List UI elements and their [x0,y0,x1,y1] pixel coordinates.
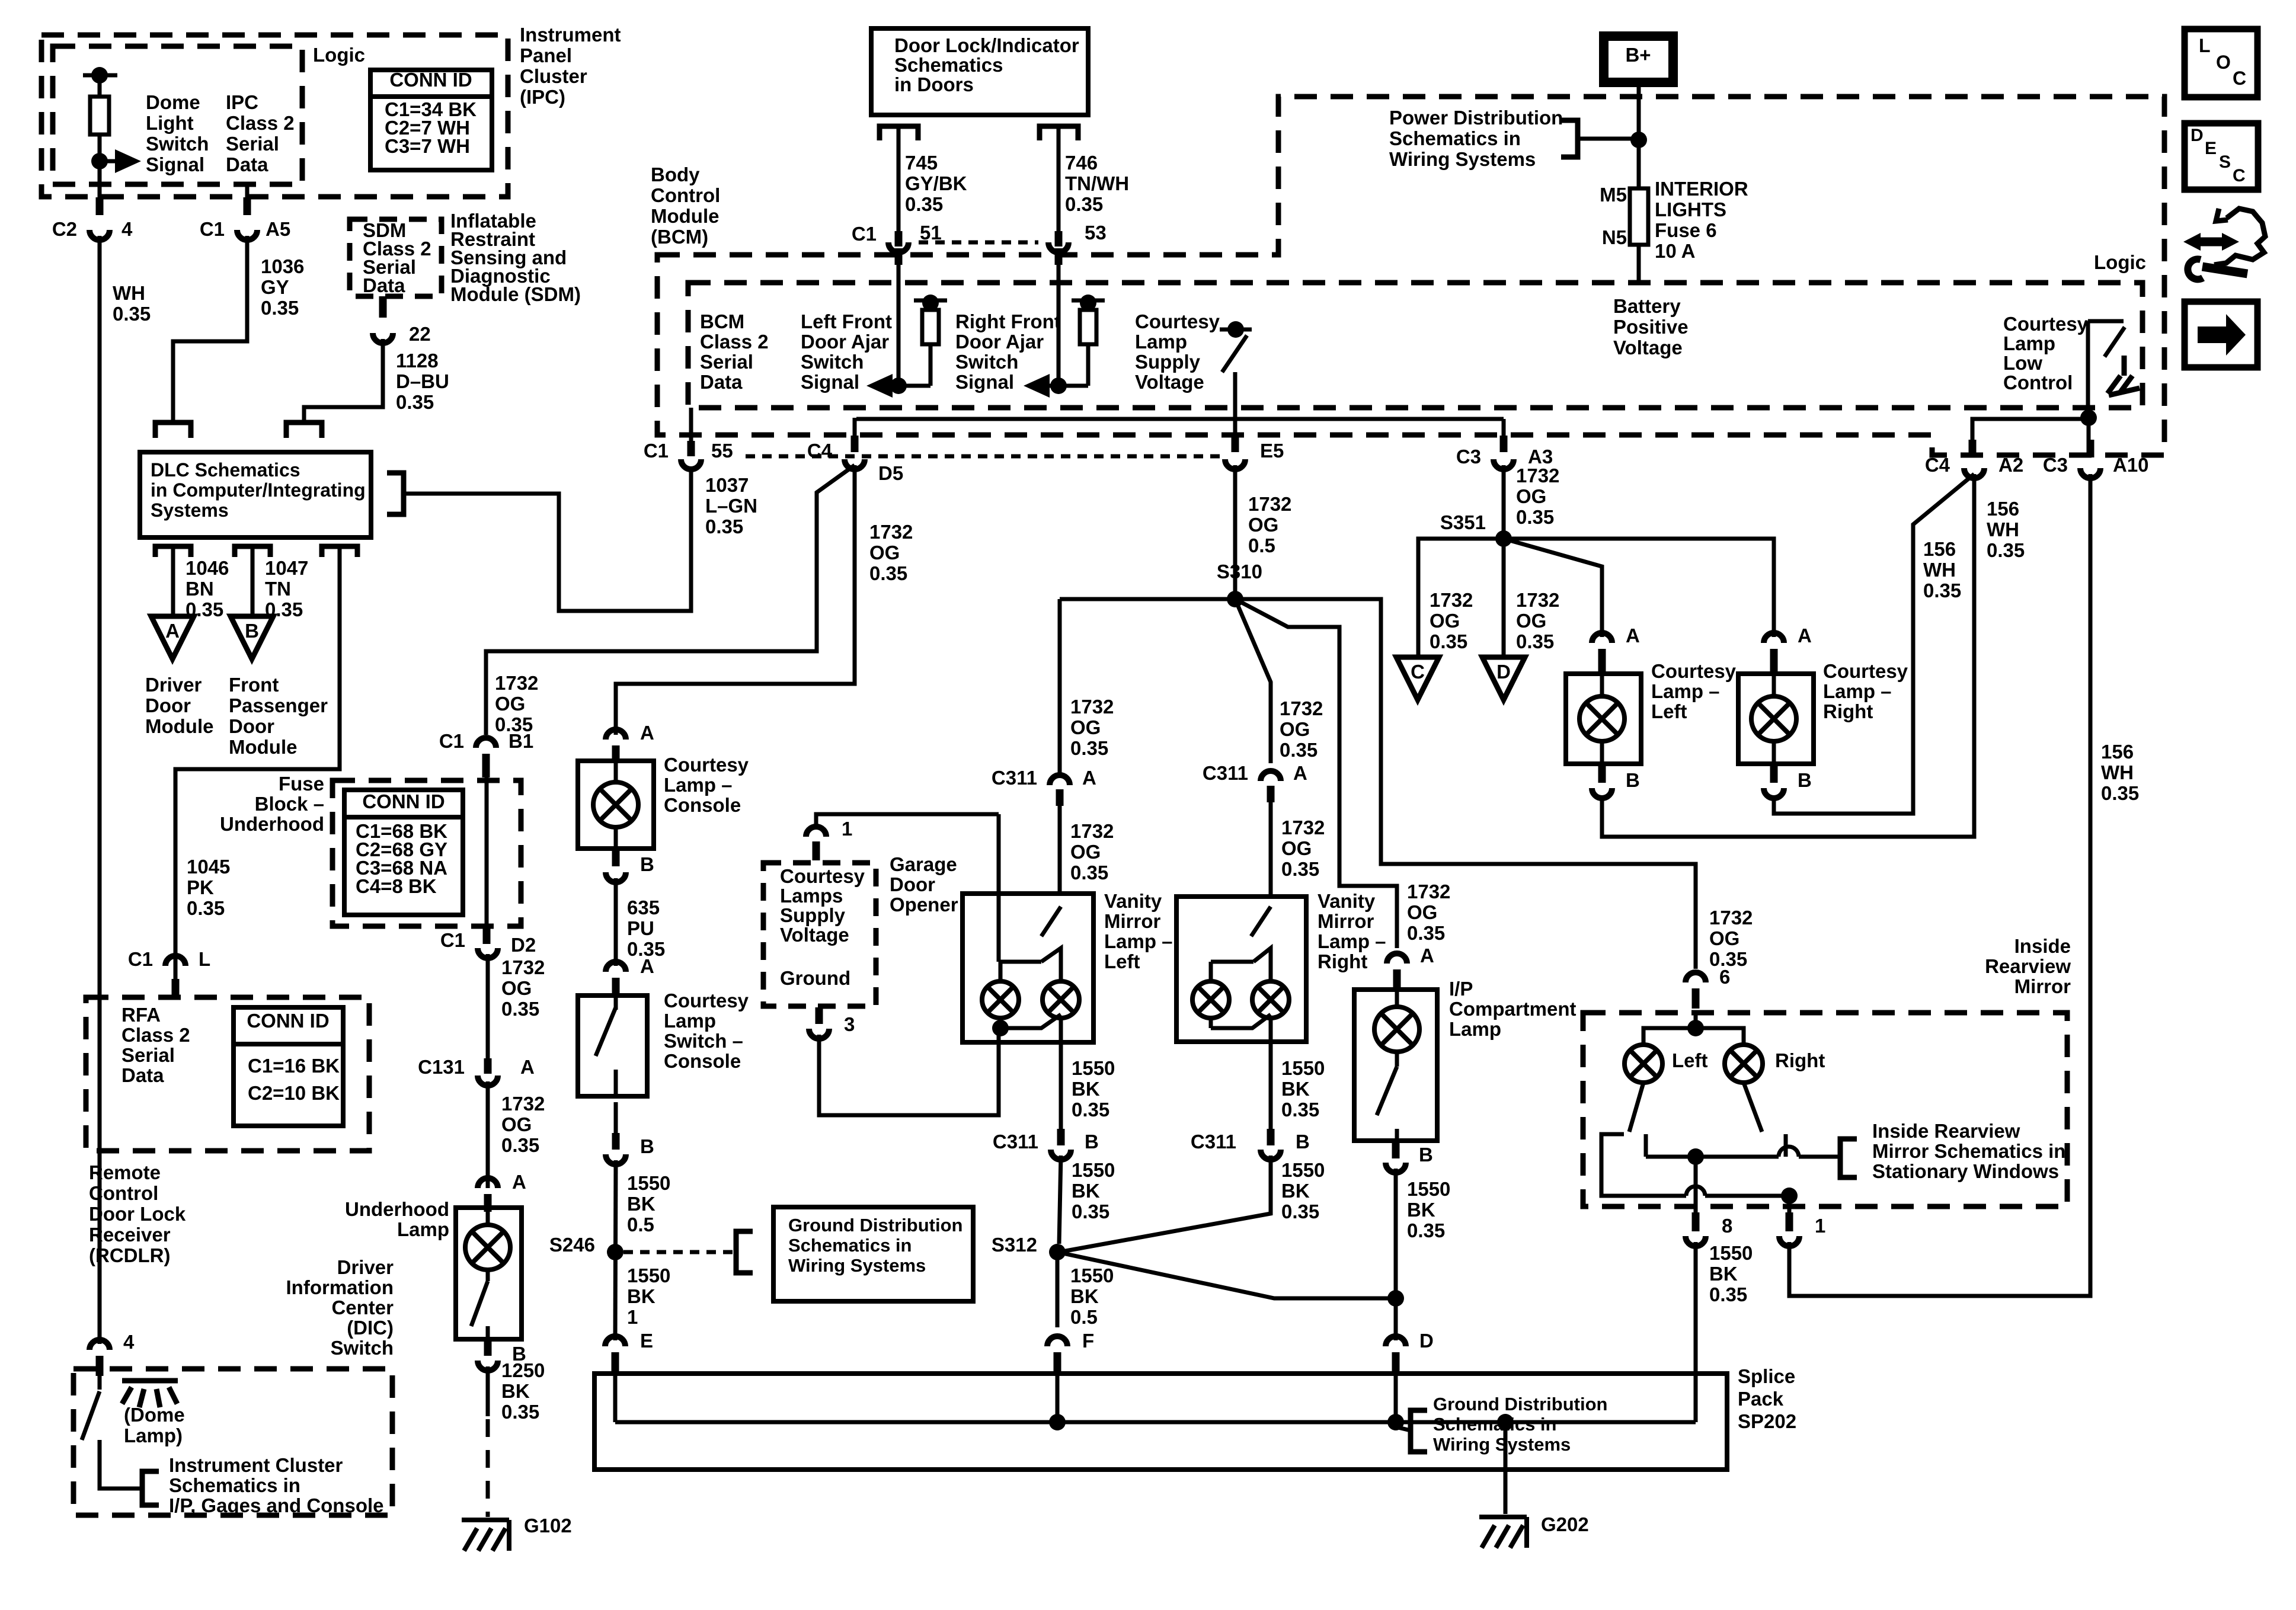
triangle connector A (driver door module) [151,616,194,659]
svg-text:C3: C3 [2043,454,2068,476]
pin mirror 1 [1786,1212,1793,1231]
svg-text:C131: C131 [418,1056,465,1078]
wire D drop [1394,1352,1398,1422]
svg-text:Schematics: Schematics [894,54,1003,76]
wire to pin 8 [1694,1157,1698,1212]
pin C4-A2 [1969,440,1977,457]
wire 1732 OG 0.5 [1233,465,1237,599]
LOC icon box [2185,29,2257,97]
svg-text:Lamp: Lamp [1449,1018,1501,1040]
svg-text:OG: OG [1281,837,1312,859]
courtesy lamp left box [1566,674,1641,764]
svg-text:BK: BK [1072,1180,1100,1202]
wire [1395,1129,1399,1141]
BCM outer dashed box [657,97,2164,455]
wire S351 to triangle D [1502,539,1506,657]
wire 1732 OG 0.35 (C131) [486,1081,490,1188]
pin mirror 8 [1692,1212,1700,1231]
svg-text:Data: Data [363,274,405,296]
connector mirror pin 8 [1686,1236,1706,1246]
svg-text:OG: OG [1280,718,1310,740]
svg-text:Lamp: Lamp [2003,332,2055,354]
svg-text:0.35: 0.35 [1407,1219,1445,1241]
svg-text:Fuse 6: Fuse 6 [1655,219,1717,241]
wire lamps join [1000,1014,1061,1028]
wire D5 to console lamp 1732 OG [616,465,855,735]
svg-text:Wiring Systems: Wiring Systems [1389,148,1536,170]
svg-text:Lamp: Lamp [1135,331,1187,353]
svg-text:Stationary Windows: Stationary Windows [1872,1160,2059,1182]
svg-text:0.35: 0.35 [1281,1201,1319,1222]
svg-text:1732: 1732 [501,1093,545,1115]
svg-text:A: A [1798,625,1812,646]
svg-text:L–GN: L–GN [705,495,757,517]
connector C3 pin A10 [2080,468,2100,478]
connector C3 pin A3 [1494,459,1514,469]
bracket DLC bottom B [235,546,270,557]
switch blade dome [82,1391,100,1440]
wire to pin 1 [1787,1196,1792,1212]
svg-text:Courtesy: Courtesy [1823,660,1908,682]
wire S351 to courtesy lamp right [1504,539,1774,637]
connector C1 pin 53 [1048,242,1069,252]
svg-text:1732: 1732 [495,672,538,694]
svg-text:0.35: 0.35 [1987,539,2025,561]
connector F (splice pack) [1047,1336,1067,1346]
svg-text:1036: 1036 [261,255,304,277]
wire [614,996,618,1010]
svg-text:Door: Door [229,715,274,737]
svg-text:Switch –: Switch – [664,1030,743,1052]
svg-text:A: A [1420,945,1434,966]
svg-text:0.35: 0.35 [1407,922,1445,944]
svg-text:A: A [640,722,654,744]
svg-text:Right: Right [1318,950,1367,972]
wire [614,1102,618,1133]
connector C311 pin B (right) [1261,1150,1281,1160]
wire lamps join [1211,1014,1271,1028]
svg-text:OG: OG [869,542,900,564]
wire 1732 OG 0.35 down to C311 A left [1058,599,1062,777]
svg-text:0.35: 0.35 [1281,1099,1319,1121]
triangle connector C [1396,657,1439,700]
pin E5 [1232,436,1239,452]
svg-text:C1: C1 [644,440,669,462]
switch blade [1222,335,1247,372]
svg-text:S351: S351 [1440,511,1486,533]
svg-text:0.5: 0.5 [627,1214,654,1235]
wire 1046 BN 0.35 [171,546,175,616]
svg-text:Control: Control [651,184,720,206]
junction A10/A2 [2080,409,2097,426]
junction [890,377,907,394]
IPC inner Logic dashed box [53,46,302,184]
CONN ID box (RFA) [234,1007,343,1126]
resistor dome light switch [90,97,109,135]
svg-text:Courtesy: Courtesy [1135,311,1220,332]
svg-text:Receiver: Receiver [89,1224,171,1246]
svg-text:Right: Right [1775,1049,1825,1071]
pin I/P lamp B [1392,1141,1400,1158]
svg-text:C2=10 BK: C2=10 BK [248,1082,340,1104]
switch blade console [596,1007,616,1056]
svg-text:WH: WH [2101,761,2134,783]
svg-text:C: C [2233,68,2246,89]
svg-text:Supply: Supply [1135,351,1201,373]
svg-text:GY: GY [261,276,289,298]
svg-text:Switch: Switch [331,1337,394,1359]
internal ground symbol (logic) [2108,356,2140,395]
svg-text:M5: M5 [1600,184,1627,206]
dome lamp dashed box [73,1369,392,1515]
svg-text:C311: C311 [1191,1131,1236,1153]
svg-text:0.35: 0.35 [396,391,434,413]
svg-text:Signal: Signal [955,371,1014,393]
switch blade I/P [1377,1067,1397,1115]
svg-text:1: 1 [627,1306,638,1328]
wire 746 TN/WH [1057,126,1061,231]
svg-text:Class 2: Class 2 [121,1024,190,1046]
svg-text:Light: Light [146,112,194,134]
svg-text:1732: 1732 [1281,817,1325,838]
wire [98,75,102,97]
vanity mirror lamp right box [1176,897,1306,1042]
wire stub C1-55 [689,408,693,441]
svg-text:1732: 1732 [869,521,913,543]
svg-text:0.35: 0.35 [501,1134,539,1156]
svg-text:1550: 1550 [627,1265,670,1286]
svg-text:Opener: Opener [890,894,958,916]
svg-text:745: 745 [905,152,938,174]
wire [1395,1051,1399,1067]
arrow right front door ajar switch signal [1040,384,1088,388]
svg-text:Center: Center [331,1297,394,1318]
ground G202 [1479,1517,1527,1548]
svg-text:0.35: 0.35 [501,1401,539,1423]
arrow icon box [2185,302,2257,367]
wire 1047 TN 0.35 [251,546,255,616]
connector C1 pin A5 [237,230,257,240]
wire 1550 BK 0.35 to S312 [1059,1156,1061,1244]
svg-text:156: 156 [1923,538,1956,560]
underhood lamp box [456,1208,522,1339]
svg-text:0.35: 0.35 [2101,782,2139,804]
RFA dashed box [86,997,369,1151]
svg-text:C311: C311 [992,767,1037,789]
connector C4 pin D5 [845,459,865,469]
svg-text:Data: Data [700,371,743,393]
svg-text:Positive: Positive [1613,316,1689,338]
svg-text:Battery: Battery [1613,295,1681,317]
svg-text:C1: C1 [440,929,465,951]
triangle connector D [1482,657,1525,700]
wire [1059,1018,1063,1042]
wire 635 PU 0.35 [614,878,618,966]
svg-text:C4: C4 [807,440,833,462]
wire 1550 BK 0.5 [615,1160,616,1340]
pull-up resistor right front door ajar [1072,299,1105,303]
svg-text:C3=7 WH: C3=7 WH [385,135,470,157]
svg-text:0.35: 0.35 [261,297,299,319]
svg-text:0.35: 0.35 [113,303,151,325]
connector SDM pin 22 [373,333,393,343]
svg-text:1732: 1732 [1709,907,1753,929]
connector C1 pin 55 [681,459,701,469]
connector C311 pin A (right) [1261,771,1281,781]
svg-text:LIGHTS: LIGHTS [1655,199,1726,220]
wire vanity left B [1059,1042,1063,1129]
wire stub C4-D5 [853,418,857,436]
svg-text:CONN ID: CONN ID [247,1010,329,1032]
svg-text:0.35: 0.35 [1070,862,1108,884]
wire 8 drop [1694,1374,1698,1422]
lamp mirror right [1725,1045,1763,1083]
svg-text:Mirror: Mirror [1104,910,1161,932]
second contact and bus [1644,1134,1648,1157]
IPC outer dashed box [41,35,508,197]
svg-text:A: A [1293,762,1307,784]
svg-text:0.35: 0.35 [187,897,225,919]
svg-text:Remote: Remote [89,1161,161,1183]
wire [245,184,250,197]
svg-text:635: 635 [627,897,660,918]
switch blade underhood [471,1281,488,1326]
fuse block underhood dashed box [332,780,521,926]
svg-text:Lamp –: Lamp – [1104,930,1173,952]
svg-text:B: B [245,620,259,642]
connector B (courtesy lamp right) [1764,788,1784,798]
wire 1045 PK 0.35 [175,546,340,979]
wire E drop [613,1352,618,1422]
svg-text:0.5: 0.5 [1248,534,1275,556]
svg-text:BK: BK [1070,1285,1099,1307]
junction mirror lamps [1687,1020,1704,1036]
wire [999,962,1003,981]
wire S310 left [1060,597,1235,601]
wire [1086,344,1091,386]
svg-text:B: B [1085,1131,1099,1153]
wire 1732 OG 0.35 [1269,802,1273,897]
pin C311 B left [1057,1129,1065,1145]
svg-text:CONN ID: CONN ID [389,69,472,91]
svg-text:WH: WH [1923,559,1956,581]
svg-text:Lamps: Lamps [780,885,843,907]
svg-text:CONN ID: CONN ID [362,790,445,812]
svg-text:D: D [1496,661,1511,683]
svg-text:E5: E5 [1260,440,1284,462]
svg-text:D5: D5 [878,462,903,484]
svg-text:Left: Left [1672,1049,1708,1071]
wire 745 GY/BK [897,126,901,231]
svg-text:0.35: 0.35 [1070,737,1108,759]
vanity mirror lamp left box [962,894,1093,1042]
svg-text:D–BU: D–BU [396,370,449,392]
svg-text:S: S [2219,152,2231,172]
svg-text:Right Front: Right Front [955,311,1061,332]
svg-text:B: B [1419,1144,1433,1166]
bracket below door-lock box right [1040,126,1078,140]
switch blade [2105,327,2125,357]
svg-text:Lamp –: Lamp – [664,774,733,796]
svg-text:Underhood: Underhood [220,813,324,835]
svg-text:1550: 1550 [1281,1159,1325,1181]
wire dome switch to bracket [100,1440,142,1489]
svg-text:O: O [2216,52,2231,73]
bracket ground distribution 2 [1411,1410,1427,1452]
svg-text:Left Front: Left Front [801,311,892,332]
pin C311 B right [1267,1129,1275,1145]
svg-text:0.35: 0.35 [1280,739,1318,761]
svg-text:D: D [2191,126,2204,145]
svg-text:10 A: 10 A [1655,240,1695,262]
pin courtesy lamp right B [1770,764,1778,783]
svg-text:Serial: Serial [121,1044,175,1066]
svg-text:Compartment: Compartment [1449,998,1576,1020]
garage door opener dashed box [763,863,876,1006]
svg-text:Door Lock: Door Lock [89,1203,186,1225]
svg-text:C1=16 BK: C1=16 BK [248,1055,340,1077]
svg-text:TN: TN [265,578,291,600]
svg-text:Lamp –: Lamp – [1651,680,1720,702]
svg-text:L: L [2199,35,2211,56]
svg-text:D2: D2 [511,934,536,956]
svg-text:N5: N5 [1602,226,1627,248]
svg-text:WH: WH [1987,518,2019,540]
wire mirror internal [1694,1013,1698,1028]
connector B (console switch) [606,1154,626,1164]
connector pin 4 (dome lamp) [89,1340,110,1350]
svg-text:0.5: 0.5 [1070,1306,1098,1328]
wire to garage door opener pin 1 [816,814,999,830]
svg-text:1037: 1037 [705,474,749,496]
bracket DLC top left [155,422,191,438]
svg-text:0.35: 0.35 [705,516,743,537]
dotted connector line C1 51-53 [919,241,1038,245]
connector A (courtesy lamp left) [1592,633,1612,643]
connector garage door opener pin 3 [809,1029,829,1039]
junction [1050,377,1067,394]
svg-text:1732: 1732 [1516,589,1559,611]
wire B+ to fuse [1637,82,1641,188]
svg-text:Lamp –: Lamp – [1318,930,1386,952]
svg-text:1732: 1732 [1516,465,1559,486]
svg-text:1047: 1047 [265,557,308,579]
svg-text:0.35: 0.35 [1065,193,1103,215]
svg-text:BCM: BCM [700,311,744,332]
svg-text:1550: 1550 [1709,1242,1753,1264]
svg-text:Module (SDM): Module (SDM) [450,283,581,305]
bracket power distribution [1561,120,1578,157]
svg-text:6: 6 [1719,966,1730,988]
splice S246 [607,1244,623,1260]
junction G202 [1497,1414,1514,1430]
svg-text:Power Distribution: Power Distribution [1389,107,1563,129]
svg-text:OG: OG [1430,610,1460,632]
connector E (splice pack) [605,1336,625,1346]
svg-text:C4: C4 [1925,454,1950,476]
svg-text:BN: BN [186,578,214,600]
wire 1037 L-GN 0.35 [404,467,691,611]
wire 156 WH 0.35 right lamp to A2 diagonal [1774,474,1974,814]
svg-text:(BCM): (BCM) [651,226,708,248]
svg-text:A: A [165,620,180,642]
svg-text:OG: OG [1070,716,1101,738]
connector A (underhood lamp) [478,1178,498,1188]
pin C311 A left [1056,789,1064,806]
lamp courtesy console [593,782,638,827]
svg-text:Rearview: Rearview [1985,955,2071,977]
svg-text:in Computer/Integrating: in Computer/Integrating [151,479,366,501]
wire S310 to I/P compartment lamp [1235,599,1397,948]
I/P compartment lamp box [1354,990,1437,1141]
wire WH 0.35 (C2-4 to dome lamp) [98,236,102,1344]
connector A (courtesy lamp right) [1764,633,1784,643]
svg-text:C1: C1 [852,223,877,245]
svg-text:1550: 1550 [1072,1159,1115,1181]
svg-text:Lamp): Lamp) [124,1425,183,1446]
wire 1250 BK 0.35 [486,1366,490,1416]
CONN ID box (fuse block) [344,790,463,915]
lamp mirror left [1625,1045,1662,1083]
wire low control [2086,321,2090,415]
connector B (courtesy lamp left) [1592,788,1612,798]
svg-text:OG: OG [501,977,532,999]
svg-text:Left: Left [1651,700,1687,722]
svg-text:55: 55 [711,440,733,462]
connector A (I/P compartment lamp) [1387,953,1407,964]
connector pin E5 [1225,459,1245,469]
svg-text:DLC Schematics: DLC Schematics [151,459,300,481]
wire [98,135,102,161]
svg-text:1550: 1550 [1072,1057,1115,1079]
wire vanity right B [1269,1042,1273,1129]
splice S351 [1495,530,1512,547]
pin C2-4 [96,197,104,215]
svg-text:B: B [1296,1131,1310,1153]
svg-text:Schematics in: Schematics in [788,1235,912,1256]
svg-text:Pack: Pack [1738,1388,1784,1410]
svg-text:Module: Module [145,715,213,737]
svg-text:B1: B1 [509,730,533,752]
svg-text:Voltage: Voltage [780,924,849,946]
svg-text:TN/WH: TN/WH [1065,172,1129,194]
junction power distribution [1630,132,1647,148]
svg-text:Switch: Switch [146,133,209,155]
svg-text:0.35: 0.35 [1281,858,1319,880]
svg-text:Lamp –: Lamp – [1823,680,1892,702]
svg-text:B+: B+ [1625,44,1651,66]
Door Lock/Indicator Schematics in Doors box [871,28,1088,115]
lamp underhood [465,1225,510,1270]
connector C311 pin B (left) [1051,1150,1071,1160]
pin courtesy lamp left B [1598,764,1606,783]
svg-text:Passenger: Passenger [229,694,328,716]
switch blade mirror right [1744,1083,1762,1132]
svg-text:1732: 1732 [1070,696,1114,718]
svg-text:1732: 1732 [1280,697,1323,719]
pin C3-A10 [2087,440,2094,457]
svg-text:E: E [640,1330,653,1352]
dotted connector line C4 row [746,454,1222,459]
svg-text:Schematics in: Schematics in [169,1474,300,1496]
svg-text:Information: Information [286,1276,394,1298]
dotted wire S246 to ground distribution [623,1250,736,1254]
svg-text:Courtesy: Courtesy [664,990,749,1012]
svg-text:BK: BK [1281,1180,1310,1202]
junction vanity left ground [992,1020,1009,1036]
svg-text:B: B [1798,769,1812,791]
svg-text:Module: Module [651,205,719,227]
